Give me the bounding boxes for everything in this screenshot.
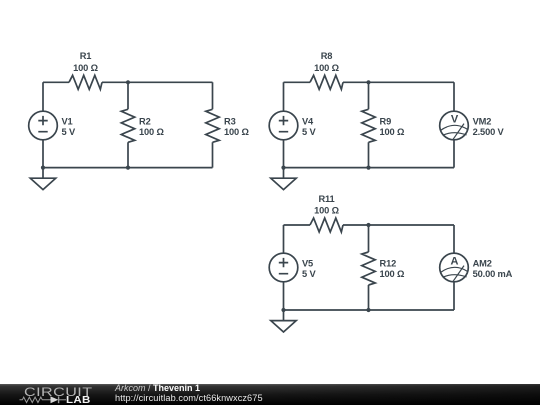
svg-text:V4: V4 [302, 117, 314, 127]
resistor R9 100 Ohm (vertical) [362, 109, 375, 142]
svg-text:100 Ω: 100 Ω [380, 127, 405, 137]
wire: circuit 2 left rail [283, 82, 285, 167]
svg-text:50.00 mA: 50.00 mA [473, 269, 513, 279]
svg-text:R8: R8 [321, 51, 333, 61]
meter VM2 [440, 111, 469, 140]
resistor R11 100 Ohm (horizontal) [310, 218, 343, 232]
svg-text:100 Ω: 100 Ω [224, 127, 249, 137]
junction node: ground/V1/bottom rail [41, 166, 45, 170]
svg-text:R2: R2 [139, 117, 151, 127]
svg-text:100 Ω: 100 Ω [380, 269, 405, 279]
wire: circuit 3 bottom rail [284, 309, 455, 311]
resistor R3 100 Ohm (vertical) [206, 109, 219, 142]
wire: circuit 1 top rail [43, 81, 213, 83]
svg-text:5 V: 5 V [62, 127, 76, 137]
wire: R3 branch vertical [212, 82, 214, 167]
wire: circuit 3 left rail [283, 225, 285, 310]
ground [271, 168, 296, 190]
resistor R12 100 Ohm (vertical) [362, 252, 375, 285]
svg-text:2.500 V: 2.500 V [473, 127, 505, 137]
svg-text:AM2: AM2 [473, 259, 492, 269]
svg-text:5 V: 5 V [302, 269, 316, 279]
junction node: R2 bottom [126, 166, 130, 170]
voltage source V5 [269, 253, 298, 282]
svg-text:A: A [451, 255, 459, 267]
ground [30, 168, 55, 190]
wire: R2 branch vertical [127, 82, 129, 167]
wire: circuit 2 top rail [284, 81, 455, 83]
svg-text:100 Ω: 100 Ω [73, 63, 98, 73]
ground [271, 310, 296, 332]
junction node: ground/V4/bottom rail [281, 166, 285, 170]
junction node: R11/R12 top [366, 223, 370, 227]
svg-text:100 Ω: 100 Ω [314, 205, 339, 215]
svg-text:R3: R3 [224, 117, 236, 127]
junction node: R8/R9 top [366, 80, 370, 84]
CircuitLab logo: resistor+diode squiggle [20, 396, 67, 403]
wire: circuit 1 left rail [42, 82, 44, 167]
resistor R8 100 Ohm (horizontal) [310, 75, 343, 89]
resistor R2 100 Ohm (vertical) [121, 109, 134, 142]
meter AM2 [440, 253, 469, 282]
svg-text:VM2: VM2 [473, 117, 492, 127]
wire: circuit 2 bottom rail [284, 167, 455, 169]
junction node: ground/V5/bottom rail [281, 308, 285, 312]
wire: voltmeter branch vertical [453, 82, 455, 167]
svg-text:R9: R9 [380, 117, 392, 127]
svg-text:Arkcom / Thevenin 1: Arkcom / Thevenin 1 [114, 383, 200, 393]
wire: circuit 1 bottom rail [43, 167, 213, 169]
svg-text:http://circuitlab.com/ct66knwx: http://circuitlab.com/ct66knwxcz675 [115, 393, 263, 403]
svg-text:R12: R12 [380, 259, 397, 269]
junction node: R9 bottom [366, 166, 370, 170]
svg-text:R11: R11 [318, 194, 334, 204]
wire: ammeter branch vertical [453, 225, 455, 310]
svg-text:100 Ω: 100 Ω [139, 127, 164, 137]
resistor R1 100 Ohm (horizontal) [69, 75, 102, 89]
svg-text:V5: V5 [302, 259, 313, 269]
svg-text:5 V: 5 V [302, 127, 316, 137]
wire: circuit 3 top rail [284, 224, 455, 226]
svg-text:LAB: LAB [66, 395, 91, 405]
voltage source V1 [29, 111, 58, 140]
svg-text:100 Ω: 100 Ω [314, 63, 339, 73]
svg-text:V1: V1 [62, 117, 73, 127]
svg-text:V: V [451, 113, 459, 125]
junction node: R12 bottom [366, 308, 370, 312]
wire: R12 branch vertical [368, 225, 370, 310]
svg-text:R1: R1 [80, 51, 92, 61]
junction node: R1/R2 top [126, 80, 130, 84]
wire: R9 branch vertical [368, 82, 370, 167]
voltage source V4 [269, 111, 298, 140]
